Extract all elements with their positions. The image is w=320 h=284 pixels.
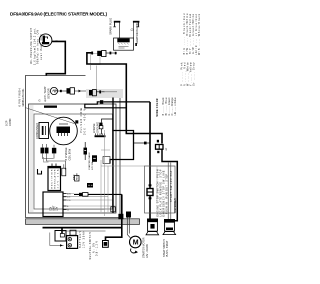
fuse box [55,231,66,242]
pulser coil inside flywheel [57,127,71,134]
svg-text:ENGINE STOP SWITCH : PUSH: ENGINE STOP SWITCH : PUSH [158,169,160,216]
battery drop wire [61,228,63,234]
connector on motor wire [126,212,131,218]
connector on neutral wire [118,214,123,219]
wire rectifier thick main [87,53,126,134]
main relay label [73,172,79,180]
wire sensor to connector [58,90,67,92]
cylinder temp sensor TH1 [50,87,57,94]
main vertical wire mid [112,98,114,214]
ground comb [95,135,106,137]
ignition coil T1 [114,38,134,50]
connector pair row low [41,148,45,154]
condenser C1 [39,123,49,139]
svg-text:GROUND: GROUND [96,122,99,133]
ignition coil tick [135,43,137,46]
leader line [25,108,74,124]
start switch SW1 [164,219,175,222]
svg-text:SENSOR: SENSOR [47,88,50,99]
neutral switch label [89,232,99,259]
engine box inner shading [30,105,34,212]
CDI unit box [43,192,63,217]
svg-text:12V: 12V [56,206,59,211]
gray verticals [101,130,108,216]
rectifier outline [91,54,101,65]
wire ground to main [102,119,113,123]
svg-text:PUSH IN : RUN OUT : STOP: PUSH IN : RUN OUT : STOP [166,174,168,214]
battery charge coil label 2 [65,147,72,160]
ground connector [99,123,102,126]
svg-text:(2): (2) [131,29,134,31]
wires from connectors down [43,154,66,170]
svg-text:COIL 80W: COIL 80W [68,148,71,160]
svg-text:EMERGENCY STOP SW LINE: EMERGENCY STOP SW LINE [164,170,166,216]
engine harness gray block [86,89,123,98]
component above resistor [87,183,93,188]
thin wires start switch [168,163,171,220]
main thick wire right [126,134,163,144]
engine cover outer box [26,76,121,218]
svg-text:START SW 12V 30A: START SW 12V 30A [170,171,173,202]
spark plug 2 [133,22,140,38]
svg-text:B: B [45,99,47,103]
node label B [6,118,13,126]
svg-text:Y/G: Y/G [67,200,71,202]
connector pair row low 2 [52,148,56,154]
svg-text:G: G [39,99,41,103]
svg-text:PUSH - START: PUSH - START [166,240,169,257]
connector under CDI [63,230,106,232]
starter motor M1 [130,236,142,248]
starter relay RY1 [147,219,158,222]
CDI pins group 1 [63,194,67,201]
svg-text:STARTER RELAY: STARTER RELAY [174,198,177,213]
connector pair harness [89,90,92,95]
harness connector mid [84,148,88,155]
spark plug 1 [113,22,120,38]
svg-text:LOCK PLATE REMOVE : STOP: LOCK PLATE REMOVE : STOP [160,169,163,216]
neutral switch NS [103,241,109,248]
connector pair sensor [67,88,71,93]
tiller labels [158,169,174,216]
svg-text:CONN: CONN [9,118,12,126]
wire start switch feed [162,149,177,221]
wire relay feed [149,102,151,219]
small box on bridge end [103,157,110,164]
cylinder temp sensor label [44,86,50,99]
stator bar [44,106,57,108]
start switch label [163,239,169,257]
svg-text:W: W [67,210,69,212]
svg-text:B/R: B/R [67,197,71,199]
svg-text:RECTIFIER: RECTIFIER [52,169,54,188]
tiller box [145,166,176,213]
wires to starter motor [127,212,130,239]
engine hull gray band [26,219,140,225]
battery BT1 [67,236,78,249]
tick on relay link [134,142,150,144]
regulator box [48,167,61,191]
engine inner box 2 [29,104,117,213]
svg-text:12V 15A: 12V 15A [57,169,60,189]
starter motor label [143,237,149,258]
svg-text:MARBLE TE COIL: MARBLE TE COIL [22,88,25,107]
starter motor mount arrow [131,249,137,254]
svg-text:MAIN: MAIN [73,174,76,180]
svg-text:CONDENSER: CONDENSER [36,123,39,139]
svg-text:12V 30A: 12V 30A [91,161,94,170]
wire rectifier sensor drop [91,65,97,90]
oil pressure switch label [30,28,43,65]
wire sensor run [75,90,97,92]
wire battery negative [50,233,64,246]
svg-text:RELAY: RELAY [76,172,79,180]
battery label [79,230,85,248]
CDI lead wires [67,194,117,210]
CDI pins group 2 [63,206,67,210]
svg-text:WIRE COLOR: WIRE COLOR [156,98,159,116]
connector right of regulator [62,168,66,176]
neutral switch wire [106,194,122,240]
wire hook gray [44,157,49,162]
svg-text:M: M [133,240,139,247]
connector pair on rectifier lead [91,52,93,55]
svg-text:Lbl ..... Lt blue: Lbl ..... Lt blue [174,97,177,116]
hook glyph [38,169,42,174]
svg-text:12V 35Ah: 12V 35Ah [82,230,85,248]
harness connector mid 2 [92,155,97,162]
connector pair on relay wire [147,189,153,196]
engine inner box 3 [34,114,113,209]
svg-text:IGNITION 6 COIL: IGNITION 6 COIL [135,22,139,44]
wire oil pressure switch to engine box [46,41,65,76]
svg-text:STARTER CABLE: STARTER CABLE [88,152,91,170]
connector harness white [111,207,115,212]
CDI main feed wire [74,193,122,195]
flywheel magneto circle [50,117,78,145]
svg-text:W/B ..... White/Black: W/B ..... White/Black [198,13,200,55]
svg-text:REGULATOR: REGULATOR [54,169,57,188]
oil pressure switch S1 [39,34,52,47]
resistor on CDI lead [79,193,82,196]
svg-text:Gr ...... Gray: Gr ...... Gray [192,62,195,86]
engine ground label [93,122,99,133]
wire color legend block C with WIRE COLOR header [156,97,177,117]
wire color legend block A [183,13,201,55]
bottom bus wire [43,227,122,229]
thick bridge wire [110,131,134,164]
kill circuit wire loop [85,102,127,108]
svg-text:DF9A0/DF9.9A0 (ELECTRIC STARTE: DF9A0/DF9.9A0 (ELECTRIC STARTER MODEL) [10,12,107,17]
svg-text:0.8 - 1.2 V: 0.8 - 1.2 V [96,241,99,256]
gray link wires [101,150,145,166]
svg-text:B/W: B/W [67,194,71,196]
svg-text:12V - 0.6 kW: 12V - 0.6 kW [146,243,149,258]
connector pair on start feed [156,145,164,150]
connector label 6P [19,88,26,107]
wire color legend block B [180,62,195,86]
battery charge coil label [80,107,87,135]
svg-text:SPARK PLUG: SPARK PLUG [109,18,113,35]
